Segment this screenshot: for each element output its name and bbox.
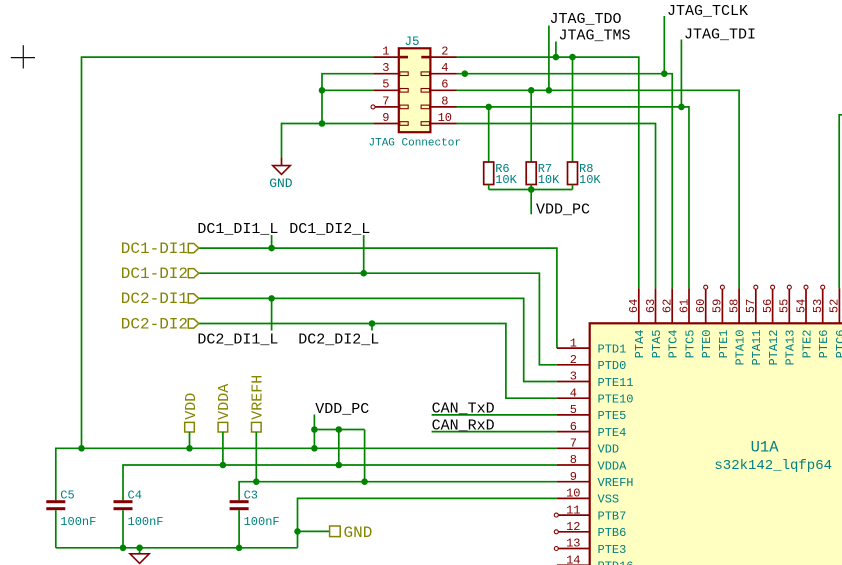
U1A pin 54 PTE2	[794, 285, 814, 358]
svg-text:JTAG_TDO: JTAG_TDO	[550, 11, 622, 28]
wire VDD_PC branch to VREFH rail	[364, 430, 366, 482]
hierarchical label GND	[330, 524, 373, 542]
wire JTAG_TMS label stub	[555, 42, 557, 58]
U1A pin 1 PTD1	[557, 336, 626, 356]
wire VSS rail to U1A pin10	[298, 498, 557, 547]
U1A pin 11 PTB7	[554, 503, 626, 523]
svg-text:J5: J5	[405, 35, 420, 49]
svg-text:DC1-DI2: DC1-DI2	[121, 265, 188, 283]
svg-text:PTD1: PTD1	[598, 342, 627, 356]
svg-text:VDD_PC: VDD_PC	[315, 401, 369, 418]
svg-text:PTA11: PTA11	[750, 330, 764, 366]
svg-text:DC2-DI1: DC2-DI1	[121, 290, 188, 308]
wire VDD rail to U1A pin7	[56, 448, 557, 500]
svg-text:63: 63	[644, 299, 658, 313]
J5 pin 9	[373, 111, 408, 125]
junction TDO on pin6 wire	[546, 87, 553, 94]
wire VDD_PC label to VDD rail	[313, 415, 315, 449]
svg-text:PTE3: PTE3	[598, 543, 627, 557]
junction branch on VREFH rail	[361, 478, 368, 485]
svg-text:10K: 10K	[538, 173, 560, 187]
wire DC1_DI1_L label stub	[271, 235, 273, 248]
svg-text:58: 58	[727, 299, 741, 313]
wire JTAG pin1 to VDD rail (net VDD_PC)	[82, 57, 374, 448]
U1A pin 55 PTA13	[778, 285, 798, 365]
wire CAN_RxD to U1A pin6	[432, 431, 557, 433]
svg-text:PTE0: PTE0	[700, 330, 714, 359]
svg-text:VDDA: VDDA	[598, 459, 628, 473]
U1A pin 14 PTD16	[557, 553, 634, 565]
svg-text:7: 7	[570, 437, 577, 451]
svg-text:PTE5: PTE5	[598, 409, 627, 423]
svg-text:U1A: U1A	[751, 439, 780, 457]
svg-text:14: 14	[566, 553, 580, 565]
svg-text:PTC5: PTC5	[683, 330, 697, 359]
capacitor C4 100nF	[114, 488, 164, 529]
svg-text:57: 57	[744, 299, 758, 313]
junction DC2_DI1_L	[268, 295, 275, 302]
svg-text:PTB7: PTB7	[598, 509, 627, 523]
svg-text:PTD16: PTD16	[598, 560, 634, 565]
wire VDD_PC branch to VDDA rail	[338, 430, 340, 466]
svg-text:10K: 10K	[495, 173, 517, 187]
svg-text:64: 64	[627, 299, 641, 313]
hierarchical label DC1-DI1	[121, 240, 199, 258]
svg-text:JTAG_TCLK: JTAG_TCLK	[667, 3, 748, 20]
sheet crosshair marker	[11, 45, 35, 68]
wire JTAG pin3 down to pin9 (GND)	[322, 74, 373, 124]
wire JTAG_TDO label stub	[548, 26, 550, 91]
wire DC1_DI2_L label stub	[363, 235, 365, 273]
junction DC1_DI2_L	[360, 270, 367, 277]
svg-text:C5: C5	[60, 488, 74, 502]
svg-text:C4: C4	[128, 488, 142, 502]
resistor R8 10K	[568, 162, 602, 187]
svg-text:7: 7	[382, 94, 389, 108]
junction TMS on pin2 wire	[553, 54, 560, 61]
ground symbol (bottom)	[130, 554, 149, 564]
svg-text:PTE6: PTE6	[817, 330, 831, 359]
U1A pin 52 PTC6	[828, 288, 842, 358]
wire R7 top to pin6 net	[530, 90, 532, 162]
power symbol VDD	[183, 393, 200, 432]
J5 pin 8	[421, 94, 456, 108]
junction pin9/GND vertical	[319, 120, 326, 127]
junction on pin4 wire	[462, 70, 469, 77]
svg-text:61: 61	[677, 299, 691, 313]
J5 pin 4	[421, 61, 456, 75]
wire GND label	[298, 530, 330, 532]
junction TDI on pin8 wire	[678, 104, 685, 111]
junction R7 on pin6 wire	[528, 87, 535, 94]
svg-text:PTA4: PTA4	[633, 330, 647, 359]
U1A pin 58 PTA10	[727, 288, 747, 365]
svg-text:PTA13: PTA13	[784, 330, 798, 366]
junction R8 on pin2 wire	[569, 54, 576, 61]
wire DC2_DI1_L label stub	[271, 298, 273, 330]
junction VDDA	[220, 462, 227, 469]
junction DC1_DI1_L	[268, 245, 275, 252]
junction VDD_PC on VDD rail	[311, 445, 318, 452]
U1A pin 2 PTD0	[557, 353, 626, 373]
svg-text:CAN_RxD: CAN_RxD	[432, 418, 495, 435]
wire VDDA stub	[222, 432, 224, 465]
wire CAN_TxD to U1A pin5	[432, 414, 557, 416]
U1A pin 64 PTA4	[627, 288, 647, 358]
wire C5 bottom	[55, 510, 57, 548]
U1A pin 59 PTE1	[711, 285, 731, 358]
wire U1A pin52 from right edge	[839, 115, 842, 289]
svg-text:DC2_DI2_L: DC2_DI2_L	[298, 332, 379, 349]
junction ground symbol stub	[136, 545, 143, 552]
svg-text:PTB6: PTB6	[598, 526, 627, 540]
connector J5 body	[399, 48, 431, 132]
U1A pin 9 VREFH	[557, 470, 634, 490]
power symbol VREFH	[250, 375, 267, 432]
svg-text:3: 3	[382, 61, 389, 75]
svg-text:5: 5	[382, 78, 389, 92]
wire R8 top to pin2 net	[572, 57, 574, 162]
svg-text:DC1_DI1_L: DC1_DI1_L	[197, 221, 278, 238]
U1A pin 5 PTE5	[557, 403, 626, 423]
ground symbol GND	[269, 157, 293, 191]
U1A pin 13 PTE3	[554, 537, 626, 557]
svg-text:4: 4	[570, 386, 577, 400]
wire JTAG pin4 to U1A pin62	[457, 74, 673, 289]
resistor R7 10K	[526, 162, 560, 187]
capacitor C3 100nF	[230, 488, 280, 529]
svg-text:6: 6	[570, 420, 577, 434]
svg-text:11: 11	[566, 503, 580, 517]
svg-text:10: 10	[566, 487, 580, 501]
U1A pin 57 PTA11	[744, 285, 764, 365]
svg-text:PTE11: PTE11	[598, 376, 634, 390]
wire DC2_DI2_L label stub	[371, 324, 373, 331]
svg-text:VREFH: VREFH	[250, 375, 267, 420]
svg-text:PTD0: PTD0	[598, 359, 627, 373]
wire VREFH stub	[255, 432, 257, 482]
U1A pin 7 VDD	[557, 437, 619, 457]
svg-text:9: 9	[382, 111, 389, 125]
wire R7 bottom to VDD_PC	[530, 185, 532, 215]
hierarchical label DC2-DI2	[121, 315, 199, 333]
svg-text:1: 1	[382, 45, 389, 59]
J5 pin 6	[421, 78, 456, 92]
svg-text:54: 54	[794, 299, 808, 313]
svg-text:2: 2	[441, 45, 448, 59]
wire C3 bottom	[238, 510, 240, 548]
wire JTAG_TDI label stub	[680, 40, 682, 107]
svg-text:100nF: 100nF	[60, 515, 96, 529]
wire JTAG pin6 to U1A pin58	[457, 90, 740, 288]
svg-text:PTA12: PTA12	[767, 330, 781, 366]
wire VREFH rail to U1A pin9	[239, 482, 557, 501]
U1A pin 10 VSS	[557, 487, 619, 507]
svg-text:56: 56	[761, 299, 775, 313]
J5 pin 3	[373, 61, 408, 75]
svg-text:PTC4: PTC4	[667, 330, 681, 359]
svg-text:59: 59	[711, 299, 725, 313]
svg-text:JTAG_TDI: JTAG_TDI	[684, 27, 756, 44]
svg-text:DC2-DI2: DC2-DI2	[121, 315, 188, 333]
resistor R6 10K	[484, 162, 518, 187]
svg-text:DC2_DI1_L: DC2_DI1_L	[197, 332, 278, 349]
J5 pin 5	[373, 78, 408, 92]
junction pin5/GND vertical	[319, 87, 326, 94]
wire R8 bottom	[572, 185, 574, 190]
svg-text:3: 3	[570, 370, 577, 384]
svg-text:100nF: 100nF	[244, 515, 280, 529]
svg-text:100nF: 100nF	[128, 515, 164, 529]
hierarchical label DC1-DI2	[121, 265, 199, 283]
U1A pin 56 PTA12	[761, 285, 781, 365]
svg-text:PTE2: PTE2	[800, 330, 814, 359]
wire resistor bottom rail	[489, 189, 573, 191]
svg-text:8: 8	[570, 453, 577, 467]
svg-text:VDD: VDD	[598, 443, 620, 457]
wire JTAG pin10 to U1A pin63	[457, 124, 656, 289]
J5 pin 7	[371, 94, 408, 109]
svg-text:DC1-DI1: DC1-DI1	[121, 240, 188, 258]
U1A pin 4 PTE10	[557, 386, 634, 406]
junction VREFH	[253, 478, 260, 485]
svg-text:8: 8	[441, 94, 448, 108]
svg-text:GND: GND	[344, 524, 373, 542]
svg-text:6: 6	[441, 78, 448, 92]
junction resistor rail	[528, 186, 535, 193]
U1A pin 8 VDDA	[557, 453, 627, 473]
wire JTAG pin2 to U1A pin64	[457, 57, 639, 288]
junction VDD	[186, 445, 193, 452]
svg-text:VDD: VDD	[183, 393, 200, 420]
svg-text:12: 12	[566, 520, 580, 534]
svg-text:VREFH: VREFH	[598, 476, 634, 490]
svg-text:PTE1: PTE1	[717, 330, 731, 359]
wire DC1-DI2 to U1A pin2	[199, 273, 557, 365]
svg-text:PTC6: PTC6	[834, 330, 842, 359]
svg-text:CAN_TxD: CAN_TxD	[432, 400, 495, 417]
power symbol VDDA	[216, 384, 233, 432]
svg-text:4: 4	[441, 61, 448, 75]
U1A pin 12 PTB6	[554, 520, 626, 540]
junction VDD_PC branch VDDA	[336, 426, 343, 433]
svg-text:62: 62	[661, 299, 675, 313]
wire R6 top to pin8 net	[488, 107, 490, 162]
svg-text:5: 5	[570, 403, 577, 417]
hierarchical label DC2-DI1	[121, 290, 199, 308]
wire C4 bottom	[122, 510, 124, 548]
U1A pin 61 PTC5	[677, 288, 697, 358]
wire JTAG pin8 to U1A pin61	[457, 107, 689, 289]
capacitor C5 100nF	[46, 488, 96, 529]
svg-text:VDD_PC: VDD_PC	[536, 202, 590, 219]
junction VDD_PC vertical/branch	[311, 426, 318, 433]
J5 pin 1	[373, 45, 408, 59]
wire JTAG pin5 to GND vertical	[322, 89, 373, 91]
wire R6 bottom	[488, 185, 490, 190]
svg-text:1: 1	[570, 336, 577, 350]
U1A pin 62 PTC4	[661, 288, 681, 358]
junction GND label on VSS rail	[294, 528, 301, 535]
wire VDD_PC branch horizontal	[314, 429, 364, 431]
junction C3 ground	[236, 545, 243, 552]
wire VDDA rail to U1A pin8	[123, 465, 557, 500]
U1A pin 53 PTE6	[811, 285, 831, 358]
wire ground rail	[56, 547, 298, 549]
svg-text:52: 52	[828, 299, 842, 313]
wire JTAG pin9 to ground symbol	[282, 124, 374, 158]
svg-text:10K: 10K	[579, 173, 601, 187]
junction R6 on pin8 wire	[485, 104, 492, 111]
svg-text:55: 55	[778, 299, 792, 313]
svg-text:60: 60	[694, 299, 708, 313]
svg-text:JTAG Connector: JTAG Connector	[369, 137, 461, 149]
svg-text:DC1_DI2_L: DC1_DI2_L	[289, 221, 370, 238]
svg-text:2: 2	[570, 353, 577, 367]
U1A pin 6 PTE4	[557, 420, 626, 440]
U1A pin 3 PTE11	[557, 370, 634, 390]
svg-text:PTE4: PTE4	[598, 426, 627, 440]
wire DC2-DI2 to U1A pin4	[199, 324, 557, 399]
U1A pin 63 PTA5	[644, 288, 664, 358]
svg-text:GND: GND	[269, 176, 293, 191]
svg-text:JTAG_TMS: JTAG_TMS	[559, 28, 631, 45]
svg-text:PTA5: PTA5	[650, 330, 664, 359]
svg-text:VDDA: VDDA	[216, 384, 233, 420]
svg-text:C3: C3	[244, 488, 258, 502]
wire DC1-DI1 to U1A pin1	[199, 248, 557, 348]
svg-text:PTE10: PTE10	[598, 393, 634, 407]
svg-text:PTA10: PTA10	[734, 330, 748, 366]
junction JTAG pin1 wire on VDD rail	[78, 445, 85, 452]
svg-text:s32k142_lqfp64: s32k142_lqfp64	[714, 458, 832, 474]
svg-text:10: 10	[438, 111, 452, 125]
junction DC2_DI2_L	[369, 320, 376, 327]
wire ground symbol stub	[139, 548, 141, 554]
wire VDD stub	[189, 432, 191, 448]
J5 pin 10	[421, 111, 456, 125]
svg-text:13: 13	[566, 537, 580, 551]
svg-text:9: 9	[570, 470, 577, 484]
svg-text:53: 53	[811, 299, 825, 313]
wire JTAG_TCLK label stub	[663, 16, 665, 74]
wire DC2-DI1 to U1A pin3	[199, 298, 557, 381]
IC U1A s32k142_lqfp64 body	[590, 323, 842, 565]
junction C4 ground	[120, 545, 127, 552]
J5 pin 2	[421, 45, 456, 59]
U1A pin 60 PTE0	[694, 285, 714, 358]
junction TCLK on pin4 wire	[661, 70, 668, 77]
junction branch on VDDA rail	[336, 462, 343, 469]
svg-text:VSS: VSS	[598, 493, 620, 507]
